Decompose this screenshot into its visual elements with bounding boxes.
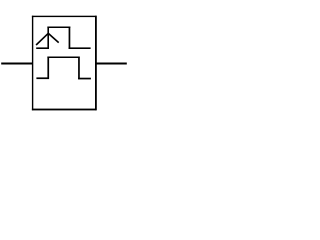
output pulse waveform: low level after fall [78,78,91,80]
input trigger waveform: high level [47,27,70,29]
wire: output lead (right) [96,63,127,65]
input trigger waveform: falling edge [69,27,71,50]
input trigger waveform: rising edge [47,27,49,50]
input trigger waveform: low level before rise [36,47,49,49]
wire: input lead (left) [1,63,32,65]
monostable block U1: body outline [32,16,97,111]
output pulse waveform: rising edge [47,57,49,80]
edge-trigger arrow: right barb [48,33,58,42]
input trigger waveform: low level after fall [69,47,91,49]
output pulse waveform: high level [47,57,79,59]
output pulse waveform: falling edge [78,57,80,80]
edge-trigger arrow: left barb [36,33,48,45]
output pulse waveform: low level before rise [36,77,49,79]
